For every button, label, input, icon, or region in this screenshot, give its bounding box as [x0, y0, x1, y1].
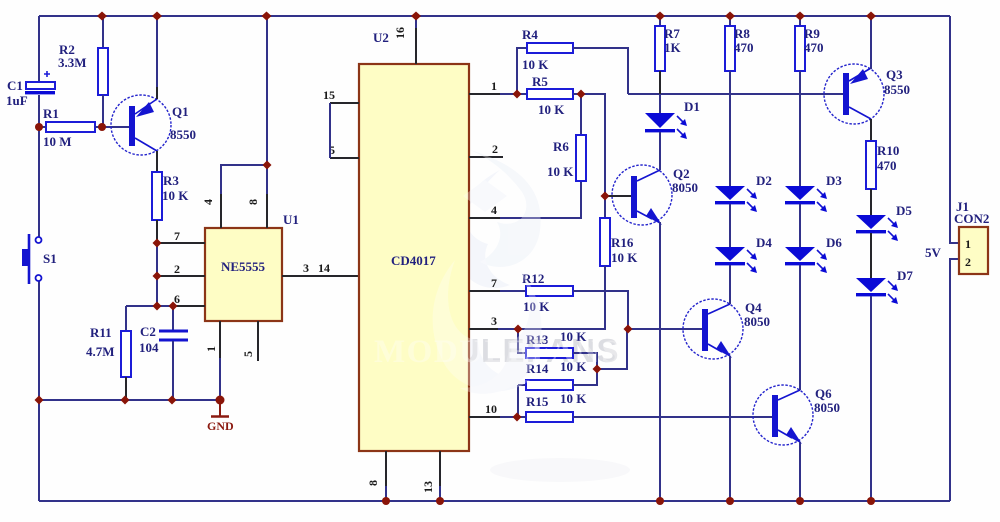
resistor R8 470	[725, 16, 754, 186]
svg-text:104: 104	[139, 340, 159, 355]
pin 2 right stub	[469, 142, 503, 157]
resistor R2	[58, 16, 108, 127]
LED D1	[645, 99, 700, 139]
wire R14 left to pin10 node	[517, 385, 519, 417]
left rail upper segment	[38, 16, 40, 82]
resistor R16	[600, 196, 638, 266]
svg-text:15: 15	[323, 88, 335, 102]
pin 4	[201, 165, 267, 228]
bottom ground rail	[39, 500, 950, 502]
svg-text:R8: R8	[734, 26, 750, 41]
wire D5 to D7	[870, 233, 872, 278]
svg-text:R15: R15	[526, 394, 549, 409]
svg-text:470: 470	[804, 40, 824, 55]
svg-text:8550: 8550	[884, 82, 910, 97]
svg-text:4.7M: 4.7M	[86, 344, 115, 359]
pin 8 bottom	[366, 451, 386, 501]
svg-text:R12: R12	[522, 271, 544, 286]
svg-text:4: 4	[491, 203, 497, 217]
svg-text:D1: D1	[684, 99, 700, 114]
svg-text:13: 13	[421, 481, 435, 493]
svg-text:10 K: 10 K	[523, 299, 550, 314]
svg-text:8: 8	[246, 199, 260, 205]
svg-text:R13: R13	[526, 332, 549, 347]
watermark swirl logo	[433, 150, 630, 482]
svg-text:GND: GND	[207, 419, 234, 433]
wire D6 to Q6 collector	[799, 265, 801, 390]
svg-text:R4: R4	[522, 27, 538, 42]
pin 7 right	[469, 276, 526, 291]
left rail lower segment	[38, 281, 40, 501]
right rail lower from J1 pin2	[950, 259, 959, 501]
transistor Q3 8550	[824, 16, 910, 141]
pin 10 right	[469, 402, 517, 417]
watermark overlay above components	[374, 150, 621, 394]
svg-text:10 K: 10 K	[611, 250, 638, 265]
svg-text:1: 1	[965, 237, 971, 251]
svg-text:470: 470	[877, 158, 897, 173]
svg-text:D2: D2	[756, 173, 772, 188]
svg-text:10 K: 10 K	[560, 359, 587, 374]
pin 6	[126, 292, 205, 306]
svg-text:R16: R16	[611, 235, 634, 250]
pin 4 right	[469, 181, 581, 218]
svg-text:16: 16	[393, 27, 407, 39]
capacitor C2 104	[139, 306, 188, 400]
wire R3 node to pins 7 2 6	[156, 243, 158, 306]
resistor R7 1K	[655, 16, 682, 113]
svg-text:1K: 1K	[664, 40, 682, 55]
LED D6	[785, 235, 842, 273]
top power rail	[39, 15, 950, 17]
pin 5 left	[329, 143, 359, 158]
svg-text:R1: R1	[43, 106, 59, 121]
wire R5 node to Q2 base column	[581, 94, 605, 196]
svg-text:8050: 8050	[744, 314, 770, 329]
svg-text:10 K: 10 K	[162, 188, 189, 203]
wire D4 to Q4 collector	[729, 265, 731, 304]
svg-text:1: 1	[204, 346, 218, 352]
svg-text:10 M: 10 M	[43, 134, 72, 149]
transistor Q4 8050	[683, 299, 770, 359]
op-amp U1 NE5555 timer box	[205, 212, 299, 321]
svg-text:3.3M: 3.3M	[58, 55, 87, 70]
resistor R12	[522, 271, 628, 329]
resistor R11	[86, 306, 131, 400]
connector J1 CON2	[954, 199, 989, 274]
wire R13 node loop to Q4 base node	[597, 329, 627, 369]
capacitor C1	[6, 71, 55, 108]
transistor Q2 8050	[605, 165, 698, 225]
left rail mid segment	[38, 95, 40, 237]
resistor R13	[518, 329, 597, 369]
LED D7	[856, 268, 913, 304]
svg-text:2: 2	[965, 255, 971, 269]
resistor R15	[517, 391, 587, 422]
svg-text:R3: R3	[163, 173, 179, 188]
svg-text:8050: 8050	[672, 180, 698, 195]
svg-text:5: 5	[241, 351, 255, 357]
svg-text:NE5555: NE5555	[221, 259, 266, 274]
svg-text:D3: D3	[826, 173, 842, 188]
ground symbol GND	[207, 400, 234, 433]
svg-text:C1: C1	[7, 78, 23, 93]
svg-text:S1: S1	[43, 251, 57, 266]
pin 3 right	[469, 314, 518, 329]
svg-text:4: 4	[201, 199, 215, 205]
wire pin3 node to Q4 base	[628, 328, 702, 330]
resistor R4	[517, 27, 628, 94]
LED D2	[715, 173, 772, 212]
svg-text:470: 470	[734, 40, 754, 55]
LED D4	[715, 235, 772, 273]
LED D3	[785, 173, 842, 212]
svg-text:R5: R5	[532, 74, 548, 89]
svg-text:1uF: 1uF	[6, 93, 28, 108]
wire pin15 to pin5 loop	[329, 103, 331, 158]
wire R16 bottom to pin3 node	[518, 266, 605, 329]
svg-text:2: 2	[174, 262, 180, 276]
svg-text:D5: D5	[896, 203, 912, 218]
resistor R1	[39, 106, 129, 149]
svg-text:10 K: 10 K	[547, 164, 574, 179]
pin 1 right	[469, 79, 517, 94]
pin 5 stub	[241, 321, 258, 361]
svg-text:10 K: 10 K	[560, 391, 587, 406]
wire D2 to D4	[729, 204, 731, 247]
resistor R9 470	[795, 16, 824, 186]
svg-text:Q4: Q4	[745, 300, 762, 315]
svg-text:8550: 8550	[170, 127, 196, 142]
pin 16	[393, 16, 416, 64]
svg-text:8050: 8050	[814, 400, 840, 415]
wire Q2 emitter to ground rail	[659, 222, 661, 501]
pin 1	[204, 321, 220, 400]
svg-text:R9: R9	[804, 26, 820, 41]
svg-text:10 K: 10 K	[538, 102, 565, 117]
transistor Q1 8550	[111, 16, 196, 172]
svg-text:7: 7	[174, 229, 180, 243]
svg-text:D4: D4	[756, 235, 772, 250]
svg-text:CD4017: CD4017	[391, 253, 436, 268]
pin 15	[323, 88, 359, 103]
wire D1 to Q2 collector	[659, 132, 661, 170]
svg-text:R10: R10	[877, 143, 899, 158]
transistor Q6 8050	[753, 385, 840, 445]
IC U2 CD4017 box	[359, 30, 469, 451]
svg-text:Q6: Q6	[815, 386, 832, 401]
svg-text:2: 2	[492, 142, 498, 156]
resistor R5	[517, 74, 581, 117]
pin 8	[246, 16, 267, 228]
svg-text:D7: D7	[897, 268, 913, 283]
svg-text:7: 7	[491, 276, 497, 290]
svg-text:Q2: Q2	[673, 166, 690, 181]
svg-text:R14: R14	[526, 361, 549, 376]
right rail upper to J1 pin1	[950, 16, 959, 243]
wire R15 to Q6 base	[573, 416, 772, 418]
svg-text:10 K: 10 K	[522, 57, 549, 72]
ground wire row	[39, 399, 220, 401]
wire Q4 emitter to ground rail	[729, 356, 731, 501]
pin 7	[157, 229, 205, 243]
LED D5	[856, 203, 912, 241]
resistor R3	[152, 172, 189, 243]
resistor R14	[518, 359, 597, 390]
svg-text:R11: R11	[90, 325, 112, 340]
pin 3 to pin 14 wire	[282, 261, 359, 276]
svg-text:10 K: 10 K	[560, 329, 587, 344]
svg-text:C2: C2	[140, 324, 156, 339]
svg-text:8: 8	[366, 480, 380, 486]
svg-text:3: 3	[491, 314, 497, 328]
svg-text:Q1: Q1	[172, 104, 189, 119]
svg-text:1: 1	[491, 79, 497, 93]
resistor R6	[547, 94, 586, 181]
wire D3 to D6	[799, 204, 801, 247]
svg-text:D6: D6	[826, 235, 842, 250]
svg-text:3: 3	[303, 261, 309, 275]
switch S1	[22, 234, 57, 284]
wire Q6 emitter to ground rail	[799, 442, 801, 501]
wire D7 to ground rail	[870, 296, 872, 501]
svg-text:U2: U2	[373, 30, 389, 45]
svg-text:R6: R6	[553, 139, 569, 154]
pin 2	[157, 262, 205, 276]
svg-text:5V: 5V	[925, 245, 942, 260]
wire R4 to Q3 base	[628, 93, 843, 95]
svg-text:Q3: Q3	[886, 67, 903, 82]
svg-text:14: 14	[318, 261, 330, 275]
svg-text:10: 10	[485, 402, 497, 416]
svg-text:CON2: CON2	[954, 211, 989, 226]
pin 13 bottom	[421, 451, 440, 501]
svg-text:U1: U1	[283, 212, 299, 227]
resistor R10 470	[866, 141, 899, 215]
svg-text:R7: R7	[664, 26, 680, 41]
